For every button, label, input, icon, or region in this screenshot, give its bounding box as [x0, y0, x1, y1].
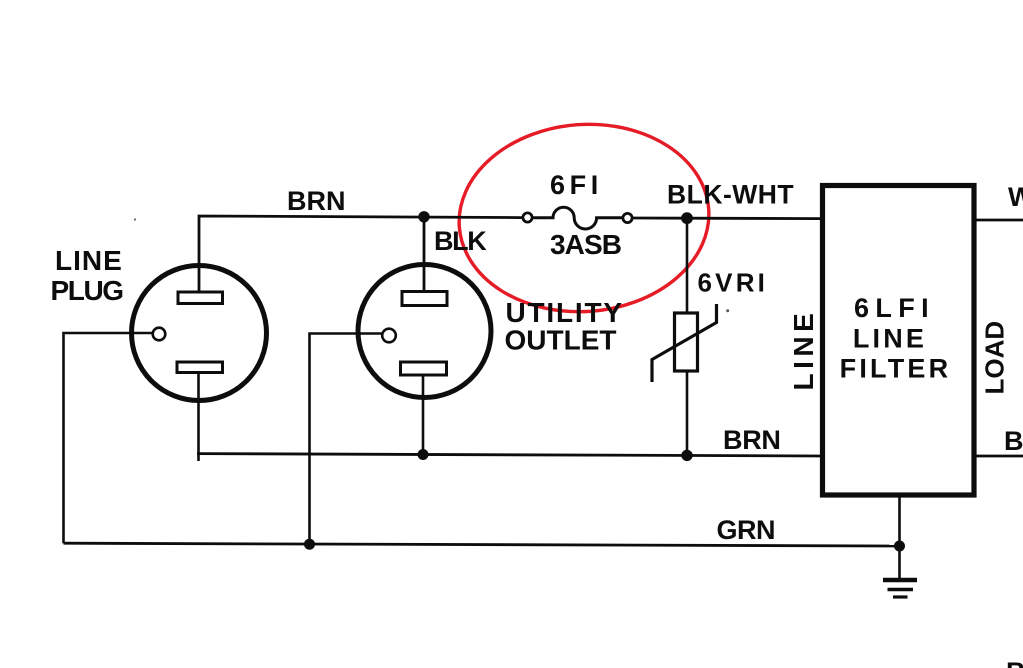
utility outlet ground pin circle	[382, 329, 396, 343]
utility outlet top prong	[402, 292, 447, 306]
utility outlet	[358, 265, 491, 398]
wire GRN bottom run	[64, 543, 900, 546]
svg-text:OUTLET: OUTLET	[505, 325, 617, 356]
wire BRN top: line plug to fuse	[199, 216, 522, 291]
utility outlet bottom prong	[401, 362, 447, 375]
utility outlet body circle	[358, 265, 491, 398]
line plug body circle	[132, 266, 267, 401]
varistor 6VR1	[652, 304, 717, 382]
svg-text:LINE: LINE	[788, 309, 819, 391]
svg-text:BRN: BRN	[1004, 426, 1023, 456]
wire varistor top: junction to 6VR1	[686, 218, 689, 313]
wire utility outlet bottom prong to BRN bottom	[422, 375, 425, 455]
svg-text:UTILITY: UTILITY	[506, 297, 624, 328]
wire line plug ground pin to GRN	[64, 333, 153, 543]
line filter 6LF1 box	[823, 186, 975, 496]
svg-text:BLK-WHT: BLK-WHT	[667, 180, 794, 210]
wire line filter LOAD side bottom (BRN)	[974, 455, 1023, 458]
svg-text:BRN: BRN	[723, 425, 781, 455]
svg-text:PLUG: PLUG	[51, 275, 124, 306]
junction at utility outlet ground / GRN	[304, 539, 315, 550]
junction at BLK-WHT / varistor top	[681, 212, 693, 224]
svg-text:6FI: 6FI	[550, 170, 603, 200]
scan speck near BRN wire	[134, 218, 136, 220]
ground	[883, 580, 917, 597]
fuse 6F1	[523, 207, 632, 229]
line plug ground pin circle	[153, 328, 166, 341]
svg-text:6VRI: 6VRI	[698, 268, 769, 298]
wire line filter case to ground	[898, 497, 901, 579]
svg-text:GRN: GRN	[717, 515, 776, 545]
wire varistor bottom: 6VR1 to BRN	[686, 371, 689, 455]
junction at varistor / BRN bottom	[681, 450, 692, 461]
fuse element squiggle	[533, 207, 623, 229]
svg-text:LOAD: LOAD	[980, 321, 1010, 395]
svg-text:FILTER: FILTER	[840, 354, 952, 384]
annotation red ellipse highlighting fuse 6F1	[453, 116, 715, 320]
line plug	[132, 266, 267, 401]
line plug top prong	[178, 292, 223, 304]
svg-text:BLK: BLK	[434, 226, 487, 256]
wire BLK-WHT junction to line filter LINE side	[687, 217, 822, 220]
junction at filter ground / GRN	[894, 541, 905, 552]
varistor 6VR1 diagonal stroke with hooks	[652, 304, 717, 382]
scan speck near 6VR1	[726, 309, 729, 312]
varistor 6VR1 body rectangle	[675, 313, 698, 371]
fuse right terminal circle	[623, 213, 632, 222]
wire line plug hot prong to BRN bottom (with tick below)	[197, 372, 200, 461]
svg-text:3ASB: 3ASB	[550, 229, 621, 260]
wire line filter LOAD side top (WHT)	[974, 219, 1023, 222]
wire BLK drop to utility outlet	[423, 217, 426, 293]
svg-text:LINE: LINE	[853, 324, 927, 354]
junction at utility outlet / BRN bottom	[418, 449, 429, 460]
wire BRN bottom: plug to line filter	[197, 454, 822, 456]
wire fuse to BLK-WHT junction	[633, 217, 688, 220]
svg-text:BRN: BRN	[287, 186, 346, 216]
fuse left terminal circle	[523, 213, 532, 222]
line plug bottom prong	[177, 362, 223, 373]
svg-text:B: B	[1006, 657, 1023, 668]
wire utility outlet ground pin to GRN	[310, 334, 383, 545]
junction at BLK tap	[418, 211, 429, 222]
svg-text:LINE: LINE	[55, 245, 123, 276]
svg-text:6LFI: 6LFI	[854, 293, 935, 323]
svg-text:WHT: WHT	[1008, 182, 1023, 212]
